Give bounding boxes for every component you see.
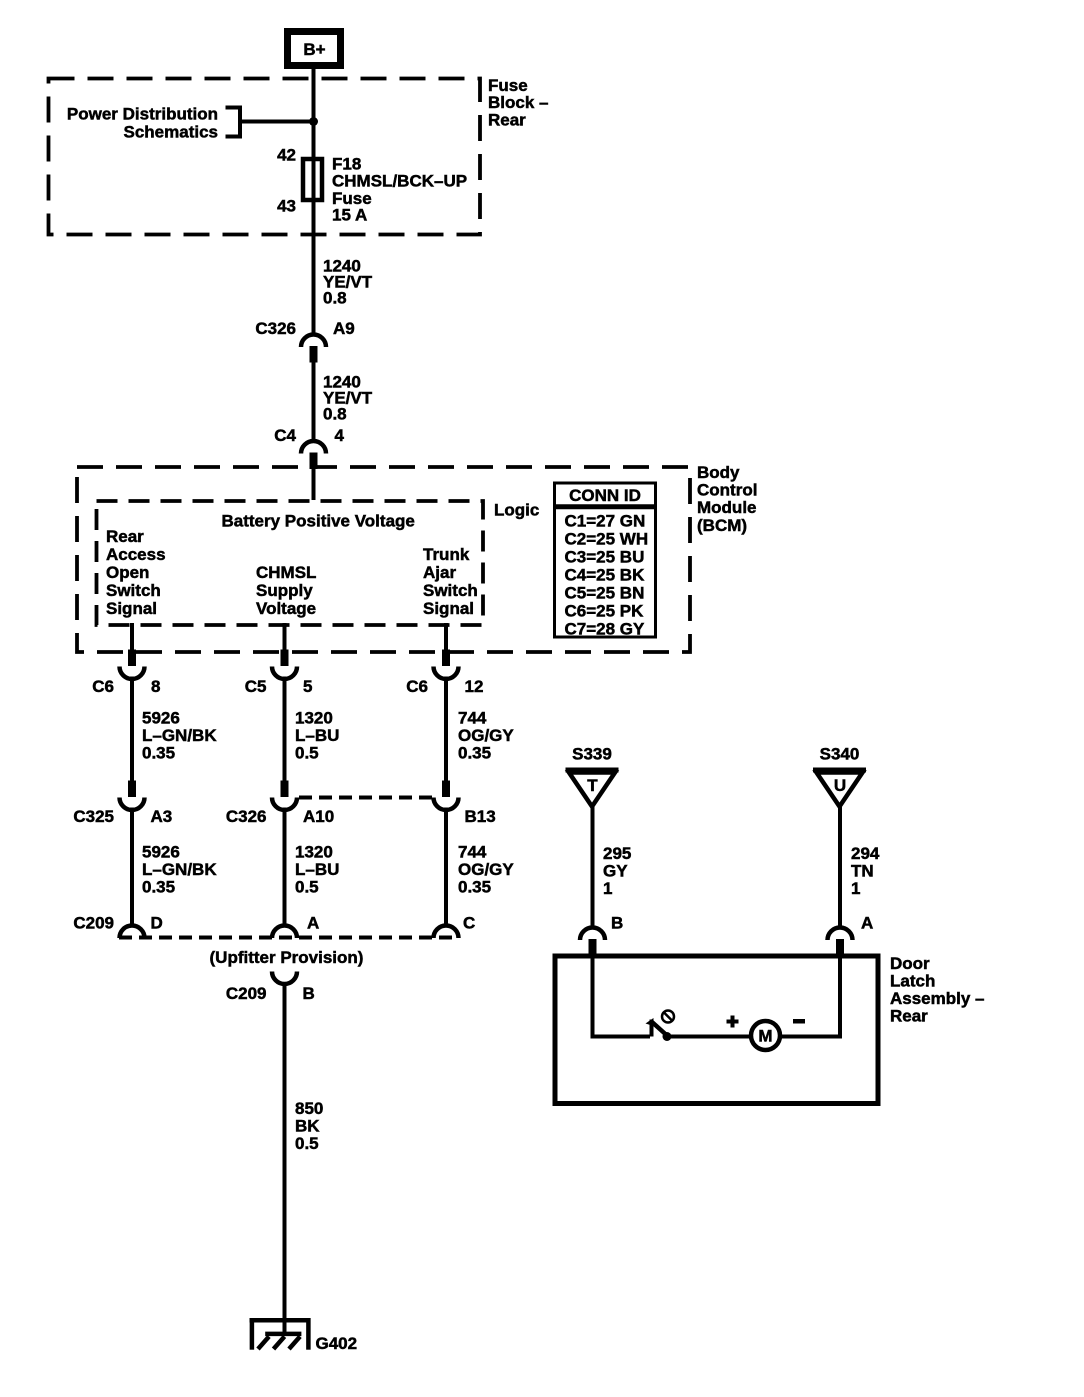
connector pin B13 symbol bbox=[434, 781, 459, 811]
svg-text:C6: C6 bbox=[406, 677, 428, 696]
svg-text:A: A bbox=[307, 914, 319, 933]
wire C6-12 to B13 bbox=[444, 677, 448, 782]
svg-text:1320: 1320 bbox=[295, 709, 333, 728]
svg-text:Open: Open bbox=[106, 563, 149, 582]
svg-text:Switch: Switch bbox=[106, 581, 161, 600]
splice S339 triangle T bbox=[566, 770, 619, 807]
wire motor to right side bbox=[781, 1035, 842, 1039]
svg-text:1320: 1320 bbox=[295, 843, 333, 862]
svg-text:43: 43 bbox=[277, 197, 296, 216]
wire label 294 TN 1 bbox=[851, 844, 880, 898]
label Rear Access Open Switch Signal bbox=[106, 527, 166, 618]
switch riser bbox=[650, 1020, 654, 1037]
dashed connector line A10 to B13 bbox=[299, 796, 432, 800]
svg-text:C209: C209 bbox=[73, 914, 114, 933]
svg-text:C325: C325 bbox=[73, 807, 114, 826]
svg-text:Rear: Rear bbox=[890, 1007, 928, 1026]
connector terminal B symbol bbox=[580, 927, 605, 955]
svg-text:A3: A3 bbox=[151, 807, 173, 826]
svg-text:U: U bbox=[834, 776, 846, 795]
svg-text:A9: A9 bbox=[333, 319, 355, 338]
svg-text:B13: B13 bbox=[465, 807, 496, 826]
svg-text:Trunk: Trunk bbox=[423, 545, 470, 564]
B+ battery positive symbol bbox=[288, 32, 341, 66]
svg-text:S339: S339 bbox=[572, 745, 612, 764]
svg-text:D: D bbox=[151, 914, 163, 933]
wire switch to motor bbox=[667, 1035, 750, 1039]
svg-text:42: 42 bbox=[277, 146, 296, 165]
svg-text:C6: C6 bbox=[92, 677, 114, 696]
svg-text:L–BU: L–BU bbox=[295, 860, 339, 879]
wire label 1320 L-BU 0.5 (upper) bbox=[295, 709, 339, 763]
motor M bbox=[751, 1021, 780, 1050]
wire C6-8 to C325-A3 bbox=[130, 677, 134, 782]
connector terminal A symbol bbox=[828, 927, 853, 955]
svg-text:CHMSL: CHMSL bbox=[256, 563, 316, 582]
svg-text:L–GN/BK: L–GN/BK bbox=[142, 726, 217, 745]
connector C325 pin A3 symbol bbox=[120, 781, 145, 811]
svg-text:G402: G402 bbox=[316, 1334, 358, 1353]
label Body Control Module (BCM) bbox=[697, 463, 757, 535]
switch arrowhead bbox=[646, 1018, 654, 1026]
svg-text:5926: 5926 bbox=[142, 843, 180, 862]
wire label 5926 L-GN/BK 0.35 (upper) bbox=[142, 709, 217, 763]
svg-text:L–BU: L–BU bbox=[295, 726, 339, 745]
label Trunk Ajar Switch Signal bbox=[423, 545, 478, 618]
wire label 1240 YE/VT 0.8 (upper) bbox=[323, 257, 373, 308]
svg-text:0.35: 0.35 bbox=[142, 878, 175, 897]
connector C6 pin 12 symbol bbox=[434, 650, 459, 680]
svg-text:Power Distribution: Power Distribution bbox=[67, 105, 218, 124]
wire bottom run to switch bbox=[591, 1035, 651, 1039]
wire right side up to A bbox=[838, 955, 842, 1037]
connector C5 pin 5 symbol bbox=[272, 650, 297, 680]
svg-text:(BCM): (BCM) bbox=[697, 516, 747, 535]
svg-text:5: 5 bbox=[303, 677, 312, 696]
svg-text:Ajar: Ajar bbox=[423, 563, 456, 582]
svg-text:B+: B+ bbox=[303, 40, 325, 59]
svg-text:OG/GY: OG/GY bbox=[458, 860, 514, 879]
svg-text:T: T bbox=[587, 776, 598, 795]
svg-text:0.5: 0.5 bbox=[295, 1134, 319, 1153]
svg-text:Rear: Rear bbox=[488, 111, 526, 130]
svg-text:Switch: Switch bbox=[423, 581, 478, 600]
svg-text:(Upfitter Provision): (Upfitter Provision) bbox=[210, 948, 364, 967]
connector C209 terminal A arc bbox=[272, 926, 297, 939]
svg-text:Rear: Rear bbox=[106, 527, 144, 546]
ground G402 symbol bbox=[250, 1318, 311, 1350]
wire stub rear access signal out of logic box bbox=[130, 623, 134, 651]
connector C6 pin 8 symbol bbox=[120, 650, 145, 680]
svg-text:C5=25 BN: C5=25 BN bbox=[565, 584, 645, 603]
wire label 850 BK 0.5 bbox=[295, 1099, 323, 1153]
svg-text:Module: Module bbox=[697, 498, 757, 517]
bracket after Power Distribution label bbox=[226, 108, 241, 137]
door latch assembly box bbox=[555, 956, 878, 1104]
svg-text:C326: C326 bbox=[255, 319, 296, 338]
svg-text:15 A: 15 A bbox=[332, 206, 367, 225]
svg-text:C1=27 GN: C1=27 GN bbox=[565, 512, 646, 531]
junction node dot bbox=[309, 117, 318, 126]
svg-text:S340: S340 bbox=[820, 745, 860, 764]
svg-text:Control: Control bbox=[697, 481, 757, 500]
svg-text:Voltage: Voltage bbox=[256, 599, 316, 618]
wire B+ down to connector C326 A9 bbox=[312, 68, 316, 334]
svg-text:744: 744 bbox=[458, 843, 487, 862]
svg-text:L–GN/BK: L–GN/BK bbox=[142, 860, 217, 879]
svg-text:C3=25 BU: C3=25 BU bbox=[565, 548, 645, 567]
svg-text:Door: Door bbox=[890, 954, 930, 973]
connector C209 terminal D arc bbox=[120, 926, 145, 939]
label Fuse Block - Rear bbox=[488, 76, 548, 130]
connector C326 pin A10 symbol bbox=[272, 781, 297, 811]
svg-text:B: B bbox=[303, 984, 315, 1003]
switch contact dot bbox=[663, 1032, 672, 1041]
fuse block rear dashed box bbox=[49, 79, 481, 235]
svg-text:0.5: 0.5 bbox=[295, 744, 319, 763]
svg-text:M: M bbox=[758, 1027, 772, 1046]
svg-text:8: 8 bbox=[151, 677, 160, 696]
connector C209 terminal C arc bbox=[434, 926, 459, 939]
svg-text:Schematics: Schematics bbox=[124, 123, 219, 142]
svg-text:0.35: 0.35 bbox=[458, 744, 491, 763]
wire B13 to C209-C bbox=[444, 808, 448, 928]
wire stub CHMSL supply out of logic box bbox=[283, 623, 287, 651]
svg-text:744: 744 bbox=[458, 709, 487, 728]
svg-text:A10: A10 bbox=[303, 807, 334, 826]
svg-text:B: B bbox=[611, 914, 623, 933]
svg-text:Assembly –: Assembly – bbox=[890, 989, 985, 1008]
wire stub trunk ajar out of logic box bbox=[444, 623, 448, 651]
svg-text:C5: C5 bbox=[245, 677, 267, 696]
wire label 295 GY 1 bbox=[603, 844, 631, 898]
svg-text:CONN ID: CONN ID bbox=[569, 486, 641, 505]
BCM outer dashed box bbox=[77, 467, 690, 652]
label Door Latch Assembly - Rear bbox=[890, 954, 985, 1026]
motor minus terminal bbox=[793, 1019, 805, 1024]
wire label 744 OG/GY 0.35 (upper) bbox=[458, 709, 514, 763]
connector C4 pin 4 symbol bbox=[301, 441, 326, 469]
wire C5-5 to C326-A10 bbox=[283, 677, 287, 782]
svg-text:0.35: 0.35 bbox=[142, 744, 175, 763]
svg-text:OG/GY: OG/GY bbox=[458, 726, 514, 745]
wire inside box from B down bbox=[591, 955, 595, 1039]
label Power Distribution Schematics bbox=[67, 105, 218, 142]
svg-text:TN: TN bbox=[851, 862, 874, 881]
svg-text:CHMSL/BCK–UP: CHMSL/BCK–UP bbox=[332, 172, 467, 191]
svg-text:Battery Positive Voltage: Battery Positive Voltage bbox=[222, 512, 415, 531]
svg-text:C7=28 GY: C7=28 GY bbox=[565, 620, 646, 639]
svg-text:BK: BK bbox=[295, 1117, 320, 1136]
splice S340 triangle U bbox=[813, 770, 866, 807]
svg-text:C4=25 BK: C4=25 BK bbox=[565, 566, 646, 585]
connector C326 A9 symbol bbox=[301, 335, 326, 363]
wire C325-A3 to C209-D bbox=[130, 808, 134, 928]
svg-text:294: 294 bbox=[851, 844, 880, 863]
wire label 1240 YE/VT 0.8 (lower) bbox=[323, 373, 373, 424]
Logic inner dashed box bbox=[97, 501, 484, 625]
fuse F18 rectangle bbox=[303, 159, 322, 200]
dashed connector line C209 D-A-C bbox=[119, 936, 458, 940]
svg-text:12: 12 bbox=[465, 677, 484, 696]
wire C4 into BCM logic bbox=[312, 468, 316, 500]
svg-text:Body: Body bbox=[697, 463, 740, 482]
svg-text:295: 295 bbox=[603, 844, 631, 863]
wire label 1320 L-BU 0.5 (lower) bbox=[295, 843, 339, 897]
switch blade bbox=[652, 1022, 667, 1036]
wire S339 to door latch B bbox=[591, 806, 595, 927]
label F18 CHMSL/BCK-UP Fuse 15 A bbox=[332, 155, 467, 225]
wire S340 to door latch A bbox=[838, 806, 842, 927]
svg-text:1: 1 bbox=[603, 879, 612, 898]
svg-text:C6=25 PK: C6=25 PK bbox=[565, 602, 645, 621]
svg-text:Signal: Signal bbox=[423, 599, 474, 618]
svg-text:Signal: Signal bbox=[106, 599, 157, 618]
wire C209-B to ground G402 bbox=[283, 982, 287, 1334]
svg-text:Latch: Latch bbox=[890, 972, 935, 991]
CONN ID table bbox=[553, 483, 657, 639]
svg-text:0.8: 0.8 bbox=[323, 289, 347, 308]
switch actuator circle with slash bbox=[662, 1011, 674, 1023]
svg-text:Supply: Supply bbox=[256, 581, 313, 600]
wire C326-A10 to C209-A bbox=[283, 808, 287, 928]
svg-text:5926: 5926 bbox=[142, 709, 180, 728]
wire label 744 OG/GY 0.35 (lower) bbox=[458, 843, 514, 897]
wire C326 A9 to C4 bbox=[312, 362, 316, 441]
svg-text:0.35: 0.35 bbox=[458, 878, 491, 897]
wire Power Distribution to main feed bbox=[240, 120, 314, 124]
svg-text:A: A bbox=[861, 914, 873, 933]
svg-text:0.8: 0.8 bbox=[323, 405, 347, 424]
svg-text:Access: Access bbox=[106, 545, 166, 564]
svg-text:4: 4 bbox=[335, 426, 345, 445]
label CHMSL Supply Voltage bbox=[256, 563, 316, 618]
motor plus terminal bbox=[727, 1016, 739, 1028]
svg-text:1: 1 bbox=[851, 879, 860, 898]
svg-text:C4: C4 bbox=[274, 426, 296, 445]
svg-text:Block –: Block – bbox=[488, 93, 548, 112]
svg-text:C: C bbox=[463, 914, 475, 933]
svg-text:C326: C326 bbox=[226, 807, 267, 826]
svg-text:850: 850 bbox=[295, 1099, 323, 1118]
svg-text:GY: GY bbox=[603, 862, 628, 881]
wire label 5926 L-GN/BK 0.35 (lower) bbox=[142, 843, 217, 897]
connector C209 terminal B arc bbox=[272, 972, 297, 985]
svg-text:C209: C209 bbox=[226, 984, 267, 1003]
svg-text:Logic: Logic bbox=[494, 501, 539, 520]
svg-text:0.5: 0.5 bbox=[295, 878, 319, 897]
svg-text:C2=25 WH: C2=25 WH bbox=[565, 530, 649, 549]
